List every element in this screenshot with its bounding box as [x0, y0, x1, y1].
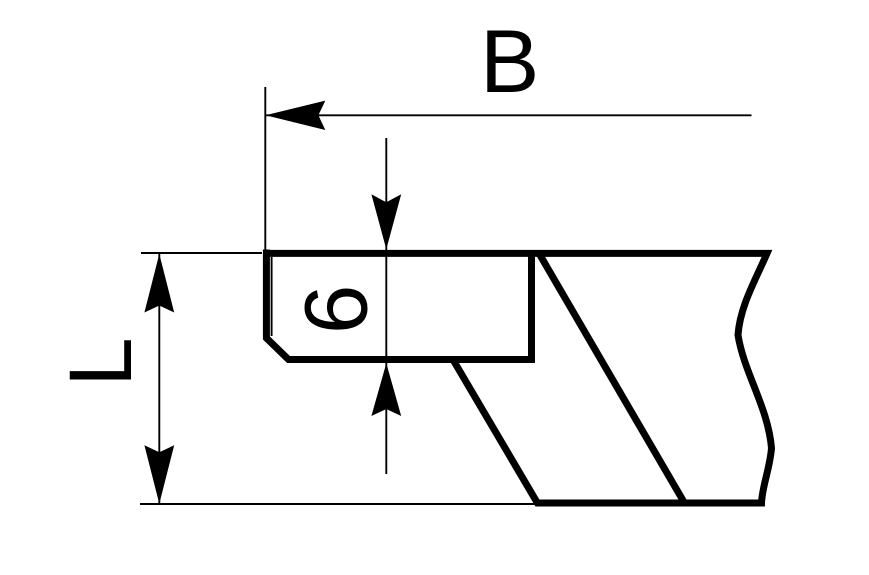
svg-text:6: 6: [286, 285, 386, 335]
svg-text:B: B: [480, 11, 539, 111]
svg-text:L: L: [50, 337, 150, 387]
